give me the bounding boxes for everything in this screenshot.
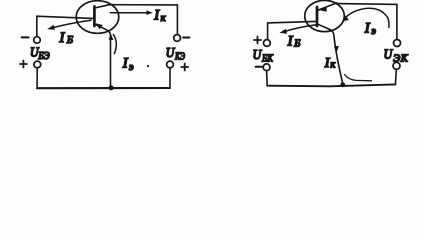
wire bottom-left terminal drop (right circuit) xyxy=(266,71,269,86)
current arrow I_Э xyxy=(113,35,116,54)
transistor VT1 emitter arrowhead (PNP) xyxy=(96,23,103,29)
svg-text:БК: БК xyxy=(261,54,274,65)
transistor VT1 circle xyxy=(76,1,119,34)
plus sign top-left (right circuit) xyxy=(254,37,261,44)
terminal U_БК minus (bottom-left) xyxy=(263,64,270,71)
wire bottom rail left circuit xyxy=(37,87,170,89)
svg-text:I: I xyxy=(59,30,66,46)
transistor VT2 emitter arrowhead (PNP) xyxy=(319,6,327,12)
plus sign bottom-left xyxy=(20,61,27,68)
node junction dot collector-rail xyxy=(340,82,345,87)
current arrow I_К xyxy=(110,12,149,14)
terminal U_KE plus (bottom-right) xyxy=(167,61,174,68)
wire collector to top-right corner xyxy=(109,5,178,35)
stray dot xyxy=(147,65,149,67)
transistor VT2 collector lead xyxy=(318,24,343,84)
terminal U_ЭК bottom-right xyxy=(393,62,400,69)
wire base lead right circuit xyxy=(268,21,316,39)
current arrow I_Э (right) xyxy=(344,8,389,27)
svg-text:I: I xyxy=(364,21,371,37)
minus sign top-left xyxy=(22,36,29,38)
wire collector-rail hook stroke xyxy=(345,75,372,81)
svg-text:Б: Б xyxy=(66,35,73,46)
svg-text:ЭК: ЭК xyxy=(393,53,409,64)
current arrow I_К head (right) xyxy=(334,46,339,53)
svg-text:к: к xyxy=(330,60,335,71)
svg-text:I: I xyxy=(153,8,160,24)
svg-text:I: I xyxy=(122,56,129,72)
svg-text:I: I xyxy=(287,33,294,49)
svg-text:э: э xyxy=(371,26,376,37)
wire bottom rail right circuit xyxy=(267,84,395,86)
svg-text:КЭ: КЭ xyxy=(174,52,185,63)
wire base lead left circuit xyxy=(37,16,94,36)
svg-text:Б: Б xyxy=(293,39,300,50)
wire bottom-right terminal rise (right circuit) xyxy=(394,69,397,84)
minus sign bottom-left (right circuit) xyxy=(256,66,263,68)
svg-text:к: к xyxy=(161,13,166,24)
terminal U_ЭК top-right xyxy=(394,40,401,47)
svg-text:U: U xyxy=(166,45,176,60)
node junction dot emitter-rail xyxy=(109,85,114,90)
transistor VT1 collector lead xyxy=(95,5,110,8)
svg-text:U: U xyxy=(253,47,263,62)
current arrow I_Б xyxy=(50,20,91,28)
terminal U_KE minus (top-right) xyxy=(174,35,181,42)
transistor VT1 emitter lead xyxy=(95,24,111,87)
svg-text:э: э xyxy=(129,62,134,73)
terminal U_BE minus (top-left) xyxy=(34,37,41,44)
transistor VT2 base bar xyxy=(316,7,319,26)
plus sign bottom-right xyxy=(181,64,188,71)
svg-text:U: U xyxy=(384,46,394,61)
transistor VT2 emitter lead xyxy=(318,3,337,10)
svg-text:БЭ: БЭ xyxy=(38,51,50,62)
terminal U_BE plus (bottom-left) xyxy=(34,61,41,68)
current arrow I_Б (right) xyxy=(283,25,316,32)
transistor VT2 circle xyxy=(305,0,345,31)
wire bottom-right terminal drop xyxy=(169,68,171,88)
transistor VT1 base bar xyxy=(93,7,96,27)
terminal U_БК plus (top-left) xyxy=(264,40,271,47)
wire bottom-left terminal drop xyxy=(36,68,38,88)
minus sign top-right xyxy=(183,37,189,39)
wire emitter to top-right corner xyxy=(337,4,397,40)
